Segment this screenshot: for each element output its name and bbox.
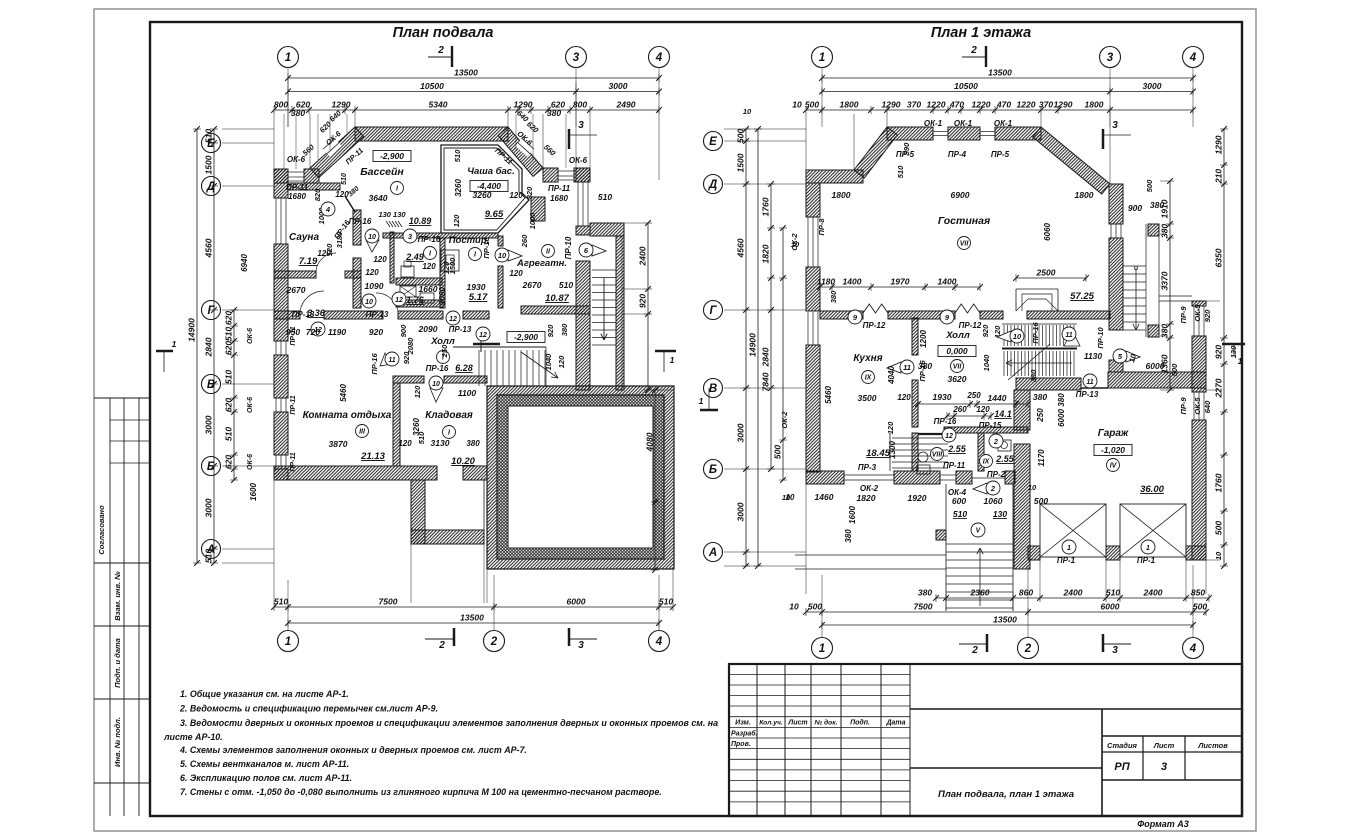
svg-text:12: 12 <box>945 433 953 440</box>
svg-text:ПР-16: ПР-16 <box>426 364 449 373</box>
svg-text:21.13: 21.13 <box>360 451 385 462</box>
svg-text:10: 10 <box>432 381 440 388</box>
svg-text:ОК-6: ОК-6 <box>287 155 306 164</box>
svg-text:1600: 1600 <box>249 483 258 501</box>
plan1 Сауна right wall <box>353 210 361 245</box>
plan2 right dim chain near <box>1169 181 1171 390</box>
svg-text:ПР-9: ПР-9 <box>1179 306 1188 324</box>
plan2 basement stair flight <box>889 433 891 471</box>
svg-text:2: 2 <box>1024 643 1032 655</box>
plan2 bottom section mark 2 <box>959 643 986 645</box>
plan1 internal stair <box>453 346 546 348</box>
svg-text:120: 120 <box>325 243 334 256</box>
svg-text:4560: 4560 <box>204 238 214 258</box>
svg-text:ПР-15: ПР-15 <box>979 421 1002 430</box>
plan1 chamfer window right <box>515 135 536 156</box>
svg-text:3370: 3370 <box>1160 271 1170 290</box>
plan1 Агрегатн bottom wall <box>521 306 590 314</box>
plan2 porch pier <box>936 530 946 540</box>
plan1 elevation -4,400 <box>470 181 508 192</box>
plan2 axis circle Е <box>704 132 723 151</box>
plan1 top-left corner wall <box>274 169 288 183</box>
svg-text:260: 260 <box>952 405 967 414</box>
svg-text:ПР-16: ПР-16 <box>418 235 441 244</box>
plan1 axis circle Б <box>202 457 221 476</box>
plan2 left wall window ОК-2 upper <box>807 217 809 267</box>
svg-text:Б: Б <box>709 464 717 476</box>
plan1 axis circle В <box>202 375 221 394</box>
svg-text:13500: 13500 <box>988 68 1012 78</box>
plan1 extension lines left <box>222 128 274 130</box>
svg-text:2: 2 <box>437 45 444 56</box>
svg-text:500: 500 <box>1170 363 1179 376</box>
plan2 bathroom top partition <box>944 427 1028 433</box>
plan2 garage right wall segments <box>1192 301 1206 306</box>
svg-text:3.36: 3.36 <box>307 308 326 318</box>
plan2 dim 2500 fireplace <box>1016 277 1086 279</box>
svg-text:510: 510 <box>1106 588 1120 598</box>
plan1 corner window ОК-6 right <box>558 170 574 172</box>
plan1 axis circle 4 bottom <box>649 631 670 652</box>
svg-text:3: 3 <box>578 640 584 651</box>
svg-text:820: 820 <box>313 188 322 201</box>
plan1 bottom wall axis Б <box>274 466 437 480</box>
svg-text:1290: 1290 <box>514 100 533 110</box>
svg-text:РП: РП <box>1114 761 1130 773</box>
svg-text:500: 500 <box>736 129 746 143</box>
svg-text:2: 2 <box>971 645 978 656</box>
svg-text:1: 1 <box>819 643 825 655</box>
plan2 zigzag door ПР-12 right <box>955 304 980 313</box>
svg-text:№ док.: № док. <box>815 719 838 727</box>
svg-text:10: 10 <box>368 234 376 241</box>
svg-text:12: 12 <box>479 332 487 339</box>
svg-text:3: 3 <box>1161 761 1167 773</box>
svg-text:380: 380 <box>1029 369 1038 382</box>
svg-text:ПР-12: ПР-12 <box>959 321 982 330</box>
plan2 left wall window lower <box>807 312 809 345</box>
svg-text:640: 640 <box>1203 400 1212 413</box>
svg-text:120: 120 <box>365 268 379 277</box>
svg-text:13500: 13500 <box>460 613 484 623</box>
svg-text:1290: 1290 <box>1054 100 1073 110</box>
svg-text:380: 380 <box>1160 224 1170 238</box>
plan2 left dim chain 14900 <box>757 129 759 566</box>
svg-text:1800: 1800 <box>832 190 851 200</box>
svg-text:1760: 1760 <box>1214 473 1224 492</box>
svg-text:1: 1 <box>819 52 825 64</box>
svg-text:2.49: 2.49 <box>405 252 424 262</box>
svg-text:3000: 3000 <box>609 81 628 91</box>
plan2 flag 5 <box>1126 351 1140 362</box>
svg-text:Согласовано: Согласовано <box>97 505 106 555</box>
plan2 axis circle В <box>704 379 723 398</box>
svg-text:500: 500 <box>808 602 822 612</box>
svg-text:510: 510 <box>896 165 905 178</box>
svg-text:5. Схемы вентканалов м. лист А: 5. Схемы вентканалов м. лист АР-11. <box>180 759 349 769</box>
svg-text:380: 380 <box>918 361 932 371</box>
svg-text:2.55: 2.55 <box>947 444 967 454</box>
svg-text:Взам. инв. №: Взам. инв. № <box>113 571 122 621</box>
svg-text:120: 120 <box>886 421 895 434</box>
svg-text:1600: 1600 <box>848 506 857 524</box>
plan2 main right wall <box>1109 184 1123 224</box>
svg-text:1. Общие указания см. на листе: 1. Общие указания см. на листе АР-1. <box>180 689 349 699</box>
svg-text:6350: 6350 <box>1214 248 1224 267</box>
plan1 porch outline <box>483 480 485 530</box>
plan1 cells bottom wall <box>396 278 442 285</box>
plan2 left dim chain windows <box>770 184 772 469</box>
svg-text:120: 120 <box>976 405 990 414</box>
svg-text:2500: 2500 <box>1036 268 1056 278</box>
plan1 stair barrier <box>473 343 500 346</box>
plan2 extension lines right <box>1160 180 1166 182</box>
plan2 flag 1 ПР-1 right <box>1141 540 1155 554</box>
plan1 bottom section mark 3 <box>568 628 571 646</box>
plan1 top-right corner wall <box>543 168 558 182</box>
svg-text:510: 510 <box>953 509 967 519</box>
plan2 left dim chain inner <box>782 228 784 480</box>
svg-text:800: 800 <box>573 100 587 110</box>
plan2 top-left chamfer wall <box>854 127 897 178</box>
svg-text:3: 3 <box>578 120 584 131</box>
svg-text:9.65: 9.65 <box>485 209 504 220</box>
plan2 right dim chain far <box>1223 129 1225 566</box>
svg-text:11: 11 <box>1065 332 1072 339</box>
svg-text:3: 3 <box>573 52 580 64</box>
plan2 internal stair arrow <box>1006 362 1072 364</box>
svg-text:11: 11 <box>388 357 395 364</box>
svg-text:3: 3 <box>1112 645 1118 656</box>
title block revision rows <box>729 674 910 676</box>
left margin table <box>109 398 111 816</box>
plan1 porch left wall <box>411 480 425 544</box>
svg-text:3180: 3180 <box>335 231 344 249</box>
svg-text:4: 4 <box>655 52 663 64</box>
svg-text:1300: 1300 <box>888 441 897 459</box>
svg-text:3620: 3620 <box>948 374 967 384</box>
svg-text:1680: 1680 <box>288 192 306 201</box>
plan1 middle partition horizontal <box>383 233 498 238</box>
svg-text:ОК-5: ОК-5 <box>1193 397 1202 415</box>
plan1 corridor left wall <box>353 258 361 308</box>
plan1 external stair outline <box>616 236 624 390</box>
svg-text:2670: 2670 <box>286 285 306 295</box>
plan2 wall Кухня/Холл <box>912 318 918 355</box>
svg-text:Дата: Дата <box>885 720 905 727</box>
plan2 left wall corner piece <box>806 471 844 484</box>
svg-text:260: 260 <box>520 234 529 248</box>
plan1 top section mark 2 <box>428 56 452 58</box>
svg-text:Бассейн: Бассейн <box>360 166 404 178</box>
plan2 left wall segments <box>806 183 820 217</box>
svg-text:Разраб.: Разраб. <box>731 730 758 738</box>
svg-text:ПР-1: ПР-1 <box>1057 556 1076 565</box>
plan2 top section mark 2 <box>962 56 986 58</box>
plan2 garage top wall <box>1016 378 1081 390</box>
svg-text:620: 620 <box>224 398 234 412</box>
plan1 toilet in cell <box>401 266 414 277</box>
svg-text:6000: 6000 <box>1057 409 1066 427</box>
svg-text:7. Стены с отм. -1,050 до -0,0: 7. Стены с отм. -1,050 до -0,080 выполни… <box>180 787 662 797</box>
plan1 top-right section mark 3 <box>568 129 571 149</box>
svg-text:1040: 1040 <box>544 353 553 371</box>
svg-text:2: 2 <box>970 45 977 56</box>
plan1 axis circle А <box>202 540 221 559</box>
svg-text:6060: 6060 <box>1043 223 1052 241</box>
svg-text:Гостиная: Гостиная <box>938 215 990 227</box>
svg-text:380: 380 <box>466 439 480 448</box>
svg-text:ПР-16: ПР-16 <box>349 217 372 226</box>
svg-text:листе АР-10.: листе АР-10. <box>163 732 223 742</box>
title block frame <box>729 664 1242 816</box>
svg-text:130: 130 <box>993 509 1007 519</box>
svg-text:720: 720 <box>306 327 320 337</box>
svg-text:10.87: 10.87 <box>545 293 569 304</box>
svg-text:120: 120 <box>398 439 412 448</box>
plan2 flag 9 left <box>848 310 862 324</box>
svg-text:ОК-6: ОК-6 <box>247 397 254 413</box>
svg-text:1460: 1460 <box>815 492 834 502</box>
svg-text:В: В <box>709 383 717 395</box>
plan1 top wall <box>355 127 508 141</box>
svg-text:ПР-16: ПР-16 <box>934 417 957 426</box>
plan1 top dimension 10500/3000 <box>288 91 659 93</box>
svg-text:2400: 2400 <box>1063 588 1083 598</box>
svg-text:18.45: 18.45 <box>866 448 890 459</box>
svg-text:5460: 5460 <box>339 384 348 402</box>
svg-text:3000: 3000 <box>204 498 214 517</box>
svg-text:7.19: 7.19 <box>299 256 318 267</box>
svg-text:Е: Е <box>709 136 717 148</box>
plan2 WC areas <box>931 448 944 461</box>
plan2 left dim chain main <box>745 129 747 566</box>
svg-text:920: 920 <box>1203 309 1212 322</box>
svg-text:2: 2 <box>990 484 996 493</box>
svg-text:Листов: Листов <box>1197 741 1228 750</box>
plan2 bathroom dim line <box>918 403 1028 405</box>
plan2 external stair right arrow <box>1134 266 1138 270</box>
plan1 right wall window <box>577 182 579 226</box>
plan1 axis circle 1 top <box>278 47 299 68</box>
svg-text:510: 510 <box>559 280 573 290</box>
svg-text:510: 510 <box>204 129 214 143</box>
svg-text:ПР-1: ПР-1 <box>1137 556 1156 565</box>
svg-text:Подп.: Подп. <box>850 719 870 727</box>
plan2 garage left wall door <box>1014 429 1030 431</box>
plan2 axis circle 3 top <box>1100 47 1121 68</box>
svg-text:4: 4 <box>655 636 663 648</box>
plan1 right dim chain <box>647 223 649 390</box>
plan2 bottom dim 7500/6000 <box>806 611 1206 613</box>
svg-text:380: 380 <box>844 529 853 543</box>
plan2 fireplace <box>1015 289 1017 311</box>
svg-text:3000: 3000 <box>736 502 746 521</box>
svg-text:1130: 1130 <box>1084 351 1103 361</box>
svg-text:ОК-6: ОК-6 <box>569 156 588 165</box>
plan2 flag 11 garage door <box>1083 374 1097 388</box>
plan2 door ПР-2 in Б wall <box>972 477 1005 479</box>
plan2 top-right section mark 3 <box>1102 129 1105 149</box>
plan2 top wall segments <box>887 127 933 140</box>
svg-text:-1,020: -1,020 <box>1101 445 1125 455</box>
svg-text:57.25: 57.25 <box>1070 291 1094 302</box>
svg-text:10: 10 <box>789 602 799 612</box>
svg-text:3640: 3640 <box>369 193 388 203</box>
svg-text:1: 1 <box>1146 545 1150 552</box>
svg-text:10.89: 10.89 <box>409 216 432 226</box>
svg-text:14900: 14900 <box>187 318 197 342</box>
plan2 garage right wall windows ОК-5 <box>1193 306 1195 336</box>
svg-text:510: 510 <box>224 370 234 384</box>
svg-text:3260: 3260 <box>473 190 492 200</box>
svg-text:Лист: Лист <box>1153 741 1175 750</box>
svg-text:VIII: VIII <box>932 452 944 459</box>
plan2 bathroom partition vertical <box>978 433 984 471</box>
plan1 extension lines top <box>273 114 275 169</box>
svg-text:120: 120 <box>373 255 387 264</box>
plan2 axis grid lines <box>821 67 823 127</box>
svg-text:1820: 1820 <box>857 493 876 503</box>
plan1 axis circle Д <box>202 177 221 196</box>
plan1 flags 12/10 bottom <box>392 292 406 306</box>
svg-text:120: 120 <box>897 393 911 402</box>
svg-text:14900: 14900 <box>748 333 758 357</box>
svg-text:1040: 1040 <box>982 354 991 372</box>
plan2 axis circle 4 top <box>1183 47 1204 68</box>
svg-text:2. Ведомость и спецификацию пе: 2. Ведомость и спецификацию перемычек см… <box>179 704 438 714</box>
svg-text:1190: 1190 <box>328 327 347 337</box>
svg-text:Инв. № подл.: Инв. № подл. <box>113 717 122 767</box>
plan2 zigzag door ПР-12 left <box>863 304 888 313</box>
svg-text:920: 920 <box>369 327 383 337</box>
svg-text:14.1: 14.1 <box>994 409 1012 419</box>
svg-text:Подп. и дата: Подп. и дата <box>113 638 122 688</box>
svg-text:1290: 1290 <box>332 100 351 110</box>
plan1 left wall window ПР-11 <box>275 198 277 244</box>
svg-text:Сауна: Сауна <box>289 232 320 243</box>
svg-text:7500: 7500 <box>914 602 933 612</box>
svg-text:1060: 1060 <box>984 496 1003 506</box>
svg-text:4: 4 <box>1189 643 1197 655</box>
svg-text:860: 860 <box>1019 588 1033 598</box>
svg-text:920: 920 <box>1214 345 1224 359</box>
svg-text:Холл: Холл <box>945 330 970 341</box>
svg-text:1290: 1290 <box>1214 135 1224 154</box>
svg-text:6900: 6900 <box>951 190 970 200</box>
svg-text:1820: 1820 <box>761 244 771 263</box>
svg-text:ОК-2: ОК-2 <box>860 484 879 493</box>
svg-text:6000: 6000 <box>1146 361 1165 371</box>
plan1 axis circle 4 top <box>649 47 670 68</box>
plan2 bathroom door leaf <box>918 433 942 435</box>
svg-text:1930: 1930 <box>467 282 486 292</box>
svg-text:510: 510 <box>204 549 214 563</box>
plan2 WC fixtures <box>918 452 928 462</box>
plan1 flag 12 middle <box>476 327 490 341</box>
svg-text:ПР-11: ПР-11 <box>286 183 309 192</box>
svg-text:510: 510 <box>274 597 288 607</box>
title block revision columns <box>756 664 758 816</box>
svg-text:Чаша бас.: Чаша бас. <box>467 166 514 177</box>
drawing frame <box>150 22 1242 816</box>
svg-text:380: 380 <box>918 588 932 598</box>
plan2 axis circle 1 top <box>812 47 833 68</box>
plan1 flag 6 <box>592 245 606 256</box>
svg-text:3: 3 <box>1112 120 1118 131</box>
plan1 right wall segments <box>576 168 590 182</box>
svg-text:380: 380 <box>560 323 569 336</box>
plan2 porch outline bottom <box>945 484 947 611</box>
svg-text:Изм.: Изм. <box>735 720 751 727</box>
plan1 flag 10 Агрегатн <box>508 250 522 261</box>
plan1 bottom dimension 13500 <box>288 622 659 624</box>
svg-text:3130: 3130 <box>431 438 450 448</box>
plan1 wall axis Г <box>274 311 300 319</box>
svg-text:3000: 3000 <box>204 415 214 434</box>
plan1 top-left chamfer wall <box>310 127 364 178</box>
plan1 porch bottom wall <box>411 530 484 544</box>
plan1 wall below Холл <box>393 376 424 383</box>
svg-text:1180: 1180 <box>817 277 836 287</box>
svg-text:5.17: 5.17 <box>469 292 488 303</box>
svg-text:510: 510 <box>341 173 348 185</box>
svg-text:1760: 1760 <box>761 197 771 216</box>
svg-text:1800: 1800 <box>1085 100 1104 110</box>
svg-text:Формат А3: Формат А3 <box>1137 819 1189 829</box>
plan2 external stair right piers <box>1148 224 1159 236</box>
svg-text:210: 210 <box>1214 169 1224 184</box>
svg-text:12: 12 <box>395 297 403 304</box>
plan2 garage door X mark 2 <box>1120 504 1186 557</box>
svg-text:1: 1 <box>699 396 704 406</box>
plan1 left wall windows ОК-6 <box>275 341 277 355</box>
plan2 right wall door ПР-10 <box>1109 329 1123 331</box>
svg-text:3: 3 <box>1107 52 1114 64</box>
svg-text:А: А <box>708 547 717 559</box>
svg-text:36.00: 36.00 <box>1140 484 1164 495</box>
svg-text:Кол.уч.: Кол.уч. <box>759 720 783 727</box>
svg-text:10: 10 <box>365 299 373 306</box>
svg-text:1000: 1000 <box>528 212 537 230</box>
plan1 external stair top wall <box>590 223 624 236</box>
svg-text:500: 500 <box>773 445 783 459</box>
svg-text:900: 900 <box>399 324 408 337</box>
svg-text:2490: 2490 <box>616 100 636 110</box>
svg-text:120: 120 <box>509 269 523 278</box>
svg-text:1: 1 <box>172 339 177 349</box>
svg-text:920: 920 <box>402 351 411 364</box>
svg-text:ПР-13: ПР-13 <box>1076 390 1099 399</box>
svg-text:План подвала: План подвала <box>393 25 494 41</box>
plan1 section mark 1-1 right <box>655 350 676 352</box>
svg-text:990: 990 <box>902 142 911 155</box>
plan1 axis circle 2 bottom <box>484 631 505 652</box>
plan2 bottom section mark 3 <box>1102 634 1105 652</box>
svg-text:13500: 13500 <box>993 615 1017 625</box>
plan1 top-right chamfer wall <box>498 127 543 176</box>
plan1 flag 12 left <box>311 322 325 336</box>
svg-text:510: 510 <box>224 427 234 441</box>
svg-text:0,000: 0,000 <box>946 346 968 356</box>
svg-text:ПР-9: ПР-9 <box>1179 397 1188 415</box>
svg-text:ПР-11: ПР-11 <box>943 461 966 470</box>
svg-text:2: 2 <box>993 439 998 446</box>
svg-text:Кладовая: Кладовая <box>425 410 473 421</box>
svg-text:7500: 7500 <box>379 597 398 607</box>
title block right section lines <box>910 708 1242 710</box>
svg-text:1680: 1680 <box>550 194 568 203</box>
